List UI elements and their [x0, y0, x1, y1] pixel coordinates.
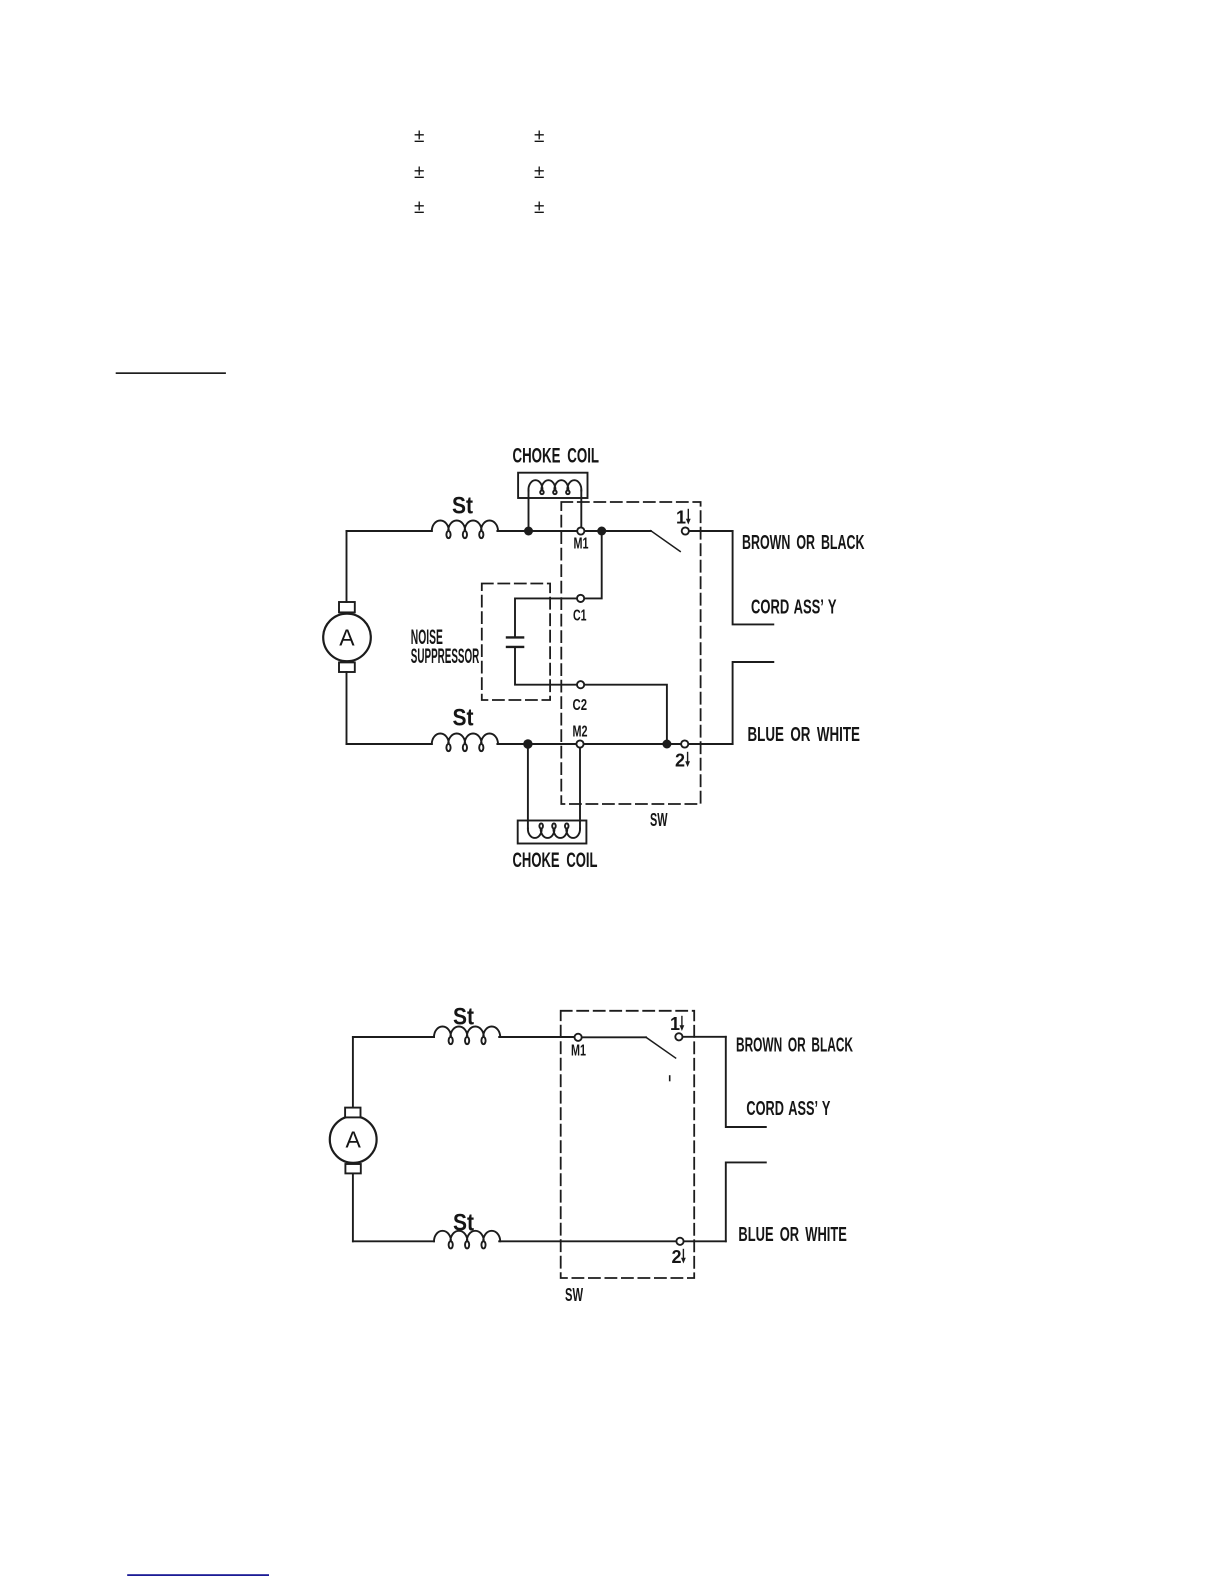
- wire capacitor bottom to C2: [515, 647, 577, 685]
- choke coil L2 winding: [528, 823, 580, 838]
- label 1 with down arrow (top): [676, 508, 686, 528]
- SW dashed box (bottom diagram): [561, 1011, 695, 1278]
- svg-text:BROWN OR BLACK: BROWN OR BLACK: [742, 532, 865, 554]
- label CORD ASS'Y (top): [751, 597, 837, 619]
- svg-text:2: 2: [675, 751, 685, 771]
- svg-text:1: 1: [670, 1014, 680, 1034]
- svg-text:SW: SW: [565, 1285, 583, 1305]
- switch tick mark (bottom diagram): [669, 1076, 671, 1081]
- cord bracket upper (top diagram): [733, 531, 774, 624]
- wire inductor to junction A: [497, 530, 528, 532]
- label SW (bottom diagram): [565, 1285, 583, 1305]
- choke coil L2 box (bottom): [518, 821, 587, 844]
- terminal M1 circle: [577, 527, 584, 534]
- svg-text:SW: SW: [650, 810, 668, 830]
- svg-text:M1: M1: [571, 1043, 586, 1060]
- terminal M2 circle: [576, 740, 583, 747]
- svg-text:±: ±: [414, 126, 424, 147]
- cord bracket lower (bottom diagram): [726, 1162, 766, 1241]
- terminal C1 circle: [577, 595, 584, 602]
- label BROWN OR BLACK (bottom): [736, 1035, 853, 1057]
- wire motor left bottom: [346, 672, 348, 744]
- svg-text:A: A: [346, 1127, 362, 1153]
- svg-text:C2: C2: [573, 697, 588, 714]
- label BROWN OR BLACK (top): [742, 532, 865, 554]
- motor terminal top rect: [339, 602, 355, 612]
- cord bracket lower (top diagram): [733, 662, 774, 744]
- wire junction D down to choke L2: [527, 744, 529, 829]
- wire terminal 1 to cord bracket: [689, 530, 732, 532]
- label CORD ASS'Y (bottom): [746, 1098, 830, 1120]
- label 1 with down arrow (bottom diagram): [670, 1014, 680, 1034]
- label CHOKE COIL (bottom): [513, 849, 598, 872]
- wire motor left top: [346, 531, 348, 602]
- svg-text:SUPPRESSOR: SUPPRESSOR: [411, 644, 480, 668]
- inductor St (bottom diagram bottom): [434, 1231, 500, 1249]
- noise suppressor dashed box: [482, 584, 550, 701]
- terminal 2 circle (bottom diagram): [676, 1238, 683, 1245]
- cord bracket upper (bottom diagram): [726, 1037, 766, 1127]
- label SW (top): [650, 810, 668, 830]
- svg-text:CORD ASS’ Y: CORD ASS’ Y: [751, 597, 837, 619]
- wire inductor to M1 (bottom diagram): [499, 1036, 574, 1038]
- svg-text:BROWN OR BLACK: BROWN OR BLACK: [736, 1035, 853, 1057]
- terminal 1 circle (bottom diagram): [675, 1033, 682, 1040]
- svg-text:St: St: [452, 493, 473, 520]
- label St (bottom inductor, bottom diagram): [453, 1210, 474, 1237]
- wire junction A to M1: [529, 530, 577, 532]
- wire junction D to M2: [528, 743, 576, 745]
- svg-text:1: 1: [676, 508, 686, 528]
- wire bottom-left horizontal: [347, 743, 432, 745]
- capacitor C plates: [507, 636, 523, 638]
- motor terminal bottom rect: [339, 662, 355, 672]
- junction C dot: [662, 740, 671, 749]
- junction A dot: [524, 527, 533, 536]
- motor terminal bottom rect (bottom diagram): [345, 1164, 360, 1173]
- label CHOKE COIL (top): [513, 445, 600, 468]
- label C1: [573, 608, 587, 625]
- wire terminal 2 to bracket (bottom diagram): [684, 1240, 726, 1242]
- blue rule bottom left: [127, 1574, 269, 1576]
- wire junction B to switch blade pivot: [602, 530, 651, 532]
- wire motor left top (bottom diagram): [352, 1037, 354, 1108]
- junction D dot: [523, 739, 532, 748]
- label BLUE OR WHITE (bottom): [738, 1224, 847, 1246]
- terminal 2 circle (top diagram): [681, 740, 688, 747]
- wire motor left bottom (bottom diagram): [352, 1173, 354, 1241]
- choke coil L1 winding: [528, 480, 581, 494]
- wire inductor to junction D: [497, 743, 528, 745]
- label 2 with down arrow (bottom diagram): [672, 1247, 682, 1267]
- svg-text:±: ±: [414, 197, 424, 218]
- svg-text:±: ±: [534, 126, 544, 147]
- label 2 with down arrow (top): [675, 751, 685, 771]
- inductor St (top): [432, 521, 498, 539]
- svg-text:±: ±: [534, 162, 544, 183]
- motor terminal top rect (bottom diagram): [345, 1108, 360, 1118]
- svg-text:BLUE OR WHITE: BLUE OR WHITE: [748, 724, 861, 746]
- wire choke L1 right lead to M1: [580, 491, 582, 528]
- motor armature A (top diagram): [323, 614, 371, 662]
- switch blade (bottom diagram): [646, 1037, 676, 1058]
- wire terminal 1 to bracket (bottom diagram): [683, 1036, 726, 1038]
- wire M1 to blade pivot (bottom diagram): [582, 1036, 646, 1038]
- wire top-left horizontal (bottom diagram): [353, 1036, 434, 1038]
- svg-text:C1: C1: [573, 608, 587, 625]
- terminal M1 circle (bottom diagram): [575, 1034, 582, 1041]
- wire bottom-left horizontal (bottom diagram): [353, 1240, 434, 1242]
- label SUPPRESSOR: [411, 644, 480, 668]
- label St (bottom-left inductor of top diagram): [453, 705, 474, 732]
- label M1: [574, 536, 589, 553]
- plus-minus symbols row 3: [414, 197, 544, 218]
- junction B dot: [597, 527, 606, 536]
- wire top-left horizontal: [347, 530, 432, 532]
- terminal 1 circle (top diagram): [682, 527, 689, 534]
- svg-text:M1: M1: [574, 536, 589, 553]
- wire C1 to capacitor top: [515, 598, 577, 637]
- wire inductor to terminal 2 (bottom diagram): [499, 1240, 676, 1242]
- svg-text:M2: M2: [573, 724, 588, 741]
- svg-text:2: 2: [672, 1247, 682, 1267]
- wire choke L1 left lead to junction A: [528, 491, 530, 532]
- svg-text:CHOKE COIL: CHOKE COIL: [513, 849, 598, 872]
- svg-text:CHOKE COIL: CHOKE COIL: [513, 445, 600, 468]
- wire M1 to junction B: [585, 530, 602, 532]
- label M1 (bottom diagram): [571, 1043, 586, 1060]
- label BLUE OR WHITE (top): [748, 724, 861, 746]
- svg-text:BLUE OR WHITE: BLUE OR WHITE: [738, 1224, 847, 1246]
- label St (top inductor, bottom diagram): [453, 1004, 474, 1031]
- wire junction B down to C1: [585, 531, 602, 598]
- label M2: [573, 724, 588, 741]
- SW dashed box (top diagram): [561, 502, 700, 804]
- svg-text:±: ±: [414, 162, 424, 183]
- svg-text:A: A: [339, 625, 355, 651]
- label St (top-left inductor): [452, 493, 473, 520]
- label NOISE: [411, 625, 443, 649]
- inductor St (bottom diagram top): [434, 1027, 500, 1045]
- choke coil L1 box (top): [518, 473, 587, 498]
- switch blade (top diagram): [651, 531, 680, 552]
- svg-text:St: St: [453, 705, 474, 732]
- wire junction C to terminal 2: [667, 743, 681, 745]
- plus-minus symbols row 2: [414, 162, 544, 183]
- wire terminal 2 to bracket: [689, 743, 733, 745]
- terminal C2 circle: [577, 681, 584, 688]
- inductor St (bottom of top diagram): [432, 734, 498, 752]
- wire C2 to junction C: [585, 685, 667, 744]
- horizontal rule top left: [116, 372, 226, 374]
- wire M2 to junction C: [584, 743, 667, 745]
- label C2: [573, 697, 588, 714]
- motor armature A (bottom diagram): [330, 1116, 377, 1163]
- svg-text:CORD ASS’ Y: CORD ASS’ Y: [746, 1098, 830, 1120]
- plus-minus symbols row 1: [414, 126, 544, 147]
- wire M2 down to choke L2: [579, 748, 581, 829]
- svg-text:±: ±: [534, 197, 544, 218]
